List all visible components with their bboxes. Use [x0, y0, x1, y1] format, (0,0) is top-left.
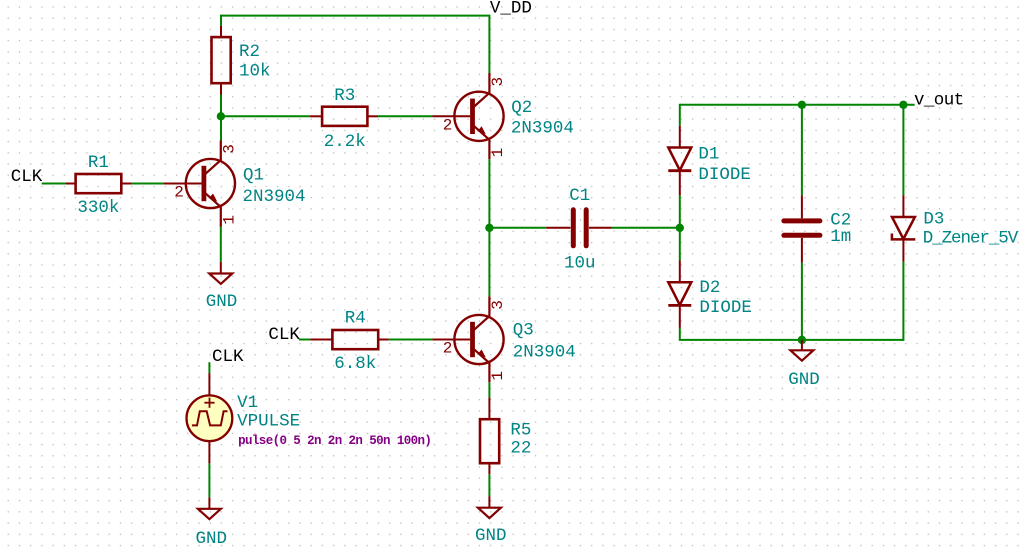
ground under V1 — [198, 497, 221, 519]
wire R2 bottom to Q1 collector — [220, 95, 222, 141]
wire D2 bottom corner — [680, 328, 904, 340]
wire Q2 emitter to Q3 collector — [488, 159, 490, 296]
wire V1 to GND — [208, 463, 210, 497]
transistor Q1 — [164, 141, 235, 227]
svg-text:C1: C1 — [569, 186, 590, 206]
ground under Q1 — [209, 262, 232, 284]
svg-text:1: 1 — [489, 371, 507, 381]
junction node B — [485, 224, 493, 232]
svg-text:DIODE: DIODE — [699, 298, 752, 318]
svg-text:V1: V1 — [237, 393, 258, 413]
wire CLK to R4 — [299, 339, 310, 341]
svg-text:Q3: Q3 — [513, 320, 534, 340]
svg-text:2: 2 — [443, 340, 453, 358]
wire R1 to Q1 base — [132, 183, 164, 185]
wire D3 top — [902, 104, 904, 195]
svg-text:GND: GND — [475, 526, 507, 546]
transistor Q2 — [432, 73, 503, 159]
svg-text:10u: 10u — [564, 254, 596, 274]
resistor R4 — [310, 330, 388, 349]
svg-text:R2: R2 — [239, 42, 260, 62]
svg-text:GND: GND — [206, 292, 238, 312]
svg-text:CLK: CLK — [268, 325, 300, 345]
svg-text:Q2: Q2 — [511, 98, 532, 118]
junction GND rail — [798, 336, 806, 344]
wire D1 bottom to node C — [679, 195, 681, 228]
svg-text:2: 2 — [443, 116, 453, 134]
svg-text:D1: D1 — [698, 145, 719, 165]
wire R5 to GND — [488, 474, 490, 496]
wire v_out rail top — [680, 104, 915, 106]
svg-text:CLK: CLK — [212, 347, 244, 367]
svg-text:DIODE: DIODE — [698, 165, 751, 185]
svg-text:6.8k: 6.8k — [334, 354, 376, 374]
diode D1 — [668, 126, 691, 196]
voltage source V1 VPULSE — [187, 373, 233, 463]
svg-text:2.2k: 2.2k — [324, 132, 366, 152]
wire node C to D2 — [679, 227, 681, 261]
svg-text:VPULSE: VPULSE — [237, 411, 300, 431]
svg-text:V_DD: V_DD — [490, 0, 532, 18]
svg-text:GND: GND — [788, 370, 820, 390]
svg-text:2N3904: 2N3904 — [511, 118, 574, 138]
svg-text:Q1: Q1 — [243, 166, 264, 186]
svg-text:v_out: v_out — [914, 90, 964, 110]
wire D3 bottom — [902, 262, 904, 341]
wire R4 to Q3 base — [389, 339, 433, 341]
junction node A — [217, 112, 225, 120]
wire R2 top stub — [220, 15, 222, 26]
junction C2 top — [798, 101, 806, 109]
svg-text:3: 3 — [489, 300, 507, 310]
svg-text:D2: D2 — [699, 278, 720, 298]
svg-text:2N3904: 2N3904 — [243, 187, 306, 207]
svg-text:22: 22 — [510, 439, 531, 459]
capacitor C1 — [546, 210, 612, 246]
svg-text:10k: 10k — [239, 62, 271, 82]
wire CLK label to V1 — [208, 362, 210, 373]
svg-text:R1: R1 — [88, 153, 109, 173]
wire C1 to node C — [612, 227, 680, 229]
wire V_DD rail top — [221, 16, 490, 74]
diode D2 — [668, 261, 691, 328]
junction node C — [676, 224, 684, 232]
capacitor C2 — [784, 195, 820, 262]
ground under R5 — [478, 496, 501, 518]
svg-text:1: 1 — [220, 215, 238, 225]
wire Q3 emitter to R5 — [488, 382, 490, 397]
wire R3 to Q2 base — [378, 115, 432, 117]
resistor R2 — [212, 26, 231, 95]
svg-text:1: 1 — [489, 148, 507, 158]
svg-text:330k: 330k — [77, 198, 119, 218]
svg-text:D_Zener_5V: D_Zener_5V — [923, 229, 1019, 249]
ground on output rail — [790, 340, 813, 361]
svg-text:R4: R4 — [345, 309, 366, 329]
wire CLK to R1 — [42, 183, 66, 185]
junction v_out — [899, 101, 907, 109]
wire Q1 emitter to GND — [220, 227, 222, 262]
svg-text:3: 3 — [489, 77, 507, 87]
wire C2 top — [801, 104, 803, 196]
svg-text:1m: 1m — [830, 227, 851, 247]
zener diode D3 — [892, 195, 915, 261]
svg-text:GND: GND — [195, 529, 227, 547]
svg-text:CLK: CLK — [11, 167, 43, 187]
svg-text:2: 2 — [174, 184, 184, 202]
transistor Q3 — [432, 296, 503, 382]
wire node A to R3 — [221, 115, 310, 117]
resistor R1 — [65, 174, 131, 193]
wire C2 bottom — [801, 263, 803, 341]
svg-text:2N3904: 2N3904 — [513, 342, 576, 362]
svg-text:3: 3 — [220, 144, 238, 154]
resistor R5 — [480, 397, 499, 474]
wire D1 top stub — [679, 104, 681, 126]
svg-text:pulse(0 5 2n 2n 2n 50n 100n): pulse(0 5 2n 2n 2n 50n 100n) — [238, 434, 431, 448]
svg-text:D3: D3 — [923, 209, 944, 229]
svg-text:R5: R5 — [510, 421, 531, 441]
wire node B to C1 — [489, 227, 546, 229]
svg-text:R3: R3 — [334, 86, 355, 106]
resistor R3 — [310, 107, 378, 126]
